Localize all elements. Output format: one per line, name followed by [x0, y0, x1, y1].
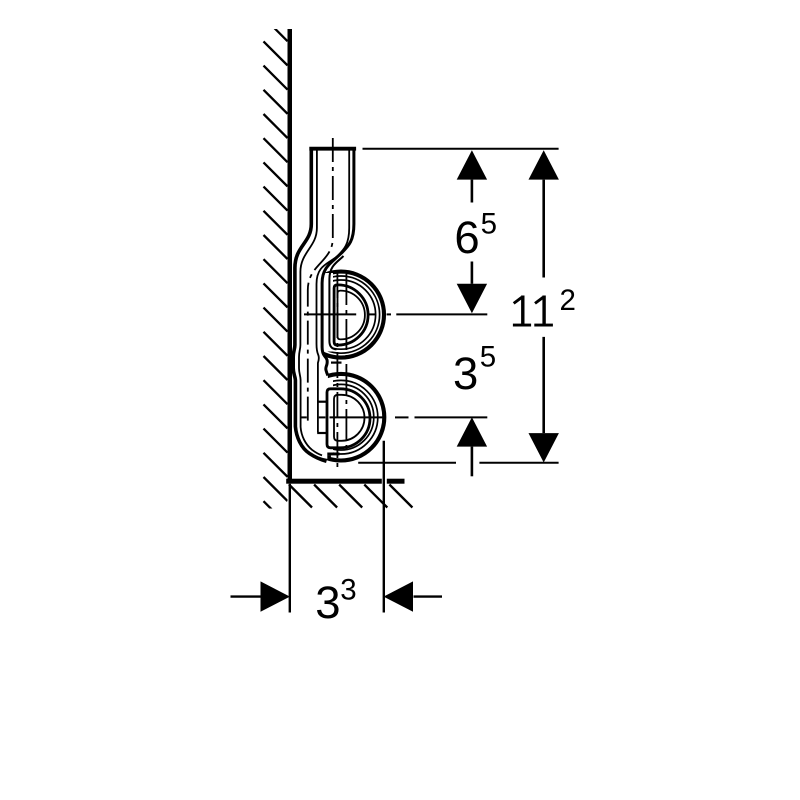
svg-text:2: 2: [560, 284, 576, 317]
svg-text:3: 3: [340, 573, 356, 606]
svg-text:5: 5: [480, 340, 496, 373]
svg-text:6: 6: [454, 212, 479, 263]
svg-text:3: 3: [315, 577, 340, 628]
svg-text:5: 5: [481, 208, 497, 241]
svg-text:3: 3: [453, 348, 478, 399]
